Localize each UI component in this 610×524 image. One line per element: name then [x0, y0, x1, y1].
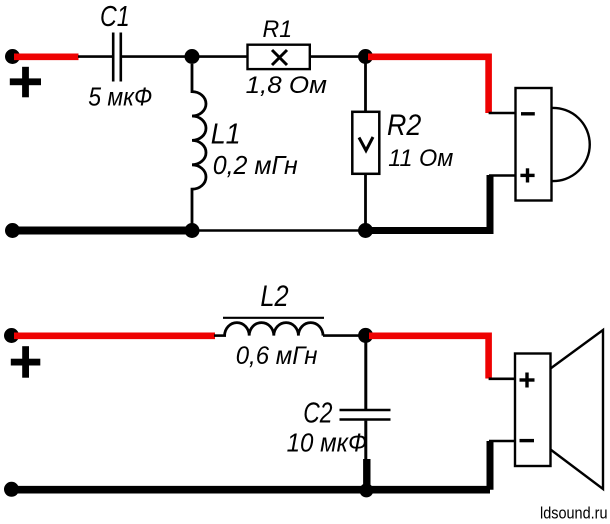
wire red from bottom-left terminal — [14, 332, 215, 339]
terminal dot bottom-left of top circuit — [5, 223, 20, 238]
wire red node B to tweeter minus — [368, 57, 489, 113]
tweeter minus terminal mark — [521, 112, 535, 115]
wire red node E to woofer plus — [369, 336, 489, 379]
tweeter plus terminal mark — [520, 168, 534, 182]
wire L2 to node E — [323, 334, 366, 337]
svg-text:10 мкФ: 10 мкФ — [287, 430, 368, 458]
svg-text:L1: L1 — [211, 119, 241, 151]
wire to capacitor C1 — [78, 55, 112, 58]
terminal dot bottom rail of bottom circuit — [4, 482, 19, 497]
wire C2 to bottom rail thick part — [363, 459, 370, 489]
terminal dot bottom circuit plus input — [4, 328, 19, 343]
wire thick woofer minus down to rail — [487, 441, 494, 490]
wire to inductor L2 — [214, 334, 226, 337]
capacitor C1 — [113, 33, 121, 82]
wire node A to resistor R1 — [192, 55, 248, 58]
wire thick bottom rail of bottom circuit — [12, 486, 490, 494]
node F junction bottom rail — [359, 483, 373, 497]
wire thin to tweeter plus terminal — [489, 174, 516, 177]
wire node B down to resistor R2 — [364, 60, 367, 112]
svg-text:C2: C2 — [303, 398, 332, 430]
resistor R1 — [248, 45, 310, 69]
inductor L1 — [192, 64, 206, 231]
svg-text:ldsound.ru: ldsound.ru — [540, 504, 608, 523]
woofer minus terminal mark — [520, 439, 535, 442]
wire C1 to node A — [122, 55, 192, 58]
wire to woofer plus terminal — [489, 377, 516, 380]
node E junction bottom circuit — [358, 328, 373, 343]
svg-text:R2: R2 — [387, 109, 421, 142]
woofer cone — [551, 330, 604, 489]
wire R1 to node B — [310, 55, 366, 58]
svg-text:1,8 Ом: 1,8 Ом — [246, 72, 327, 99]
svg-text:0,2 мГн: 0,2 мГн — [213, 150, 298, 180]
wire R2 to bottom rail — [364, 174, 367, 231]
node C junction bottom rail left — [185, 223, 200, 238]
woofer plus terminal mark — [520, 373, 535, 388]
wire thin to woofer minus terminal — [489, 440, 515, 443]
svg-text:5 мкФ: 5 мкФ — [88, 82, 152, 112]
svg-text:0,6 мГн: 0,6 мГн — [236, 342, 318, 370]
node D junction bottom rail right — [358, 223, 373, 238]
inductor L2 — [225, 323, 323, 336]
capacitor C2 — [340, 410, 391, 420]
node B junction top — [358, 49, 373, 64]
tweeter dome — [552, 108, 590, 181]
wire thin bottom rail middle segment — [192, 229, 366, 232]
svg-text:C1: C1 — [100, 1, 130, 33]
speaker woofer BA2 body — [515, 354, 551, 467]
terminal dot top-left plus input — [5, 49, 20, 64]
wire red from top-left terminal — [14, 53, 79, 60]
wire C2 to bottom rail thin part — [364, 421, 367, 460]
wire to tweeter minus terminal — [489, 112, 516, 115]
speaker tweeter BA1 body — [516, 88, 552, 201]
svg-text:R1: R1 — [263, 16, 293, 43]
inductor L2 top bar — [223, 317, 324, 319]
wire thick bottom rail left segment — [12, 227, 192, 235]
plus sign bottom input polarity — [11, 346, 41, 378]
node A junction top — [185, 49, 200, 64]
svg-text:11 Ом: 11 Ом — [388, 145, 453, 172]
wire thick bottom rail to tweeter plus — [366, 175, 491, 231]
resistor R2 — [352, 112, 379, 174]
svg-text:L2: L2 — [260, 280, 288, 313]
wire node E down to capacitor C2 — [364, 339, 367, 409]
plus sign top input polarity — [10, 67, 41, 98]
